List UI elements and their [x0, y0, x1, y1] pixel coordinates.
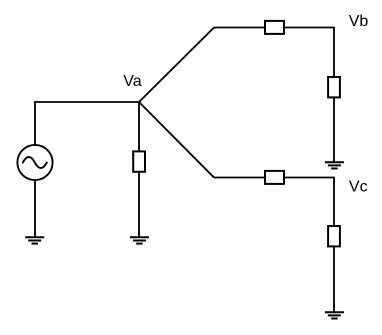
wire bottom branch left segment [214, 177, 265, 179]
wire Vc resistor to ground [333, 246, 335, 312]
svg-text:Va: Va [123, 73, 141, 90]
ground (below Va resistor) [130, 237, 149, 243]
wire diagonal Va down to bottom branch [139, 102, 214, 178]
wire top-left horizontal to node Va [34, 101, 139, 103]
svg-text:Vb: Vb [349, 13, 369, 30]
ground (Vc branch) [325, 312, 344, 318]
wire Vb corner down to resistor [333, 27, 335, 77]
resistor (vertical, Vb branch) [328, 77, 340, 97]
ground (source) [25, 237, 44, 243]
wire bottom branch right segment to Vc corner [284, 177, 334, 179]
wire source top to corner [34, 101, 36, 145]
wire resistor to ground [138, 172, 140, 238]
wire diagonal Va up to top branch [139, 28, 214, 103]
wire Vc corner down to resistor [333, 177, 335, 226]
wire Va down to resistor [138, 102, 140, 151]
ground (Vb branch) [325, 162, 344, 168]
wire top branch left segment [214, 27, 265, 29]
wire top branch right segment to Vb corner [284, 27, 334, 29]
resistor (horizontal, bottom branch) [265, 171, 284, 184]
AC voltage source V1 [17, 145, 52, 180]
resistor (vertical, below Va) [133, 151, 145, 171]
wire source bottom to ground [34, 180, 36, 237]
resistor (vertical, Vc branch) [328, 226, 340, 246]
resistor (horizontal, top branch) [265, 21, 284, 34]
wire Vb resistor to ground [333, 97, 335, 162]
svg-text:Vc: Vc [349, 179, 368, 196]
